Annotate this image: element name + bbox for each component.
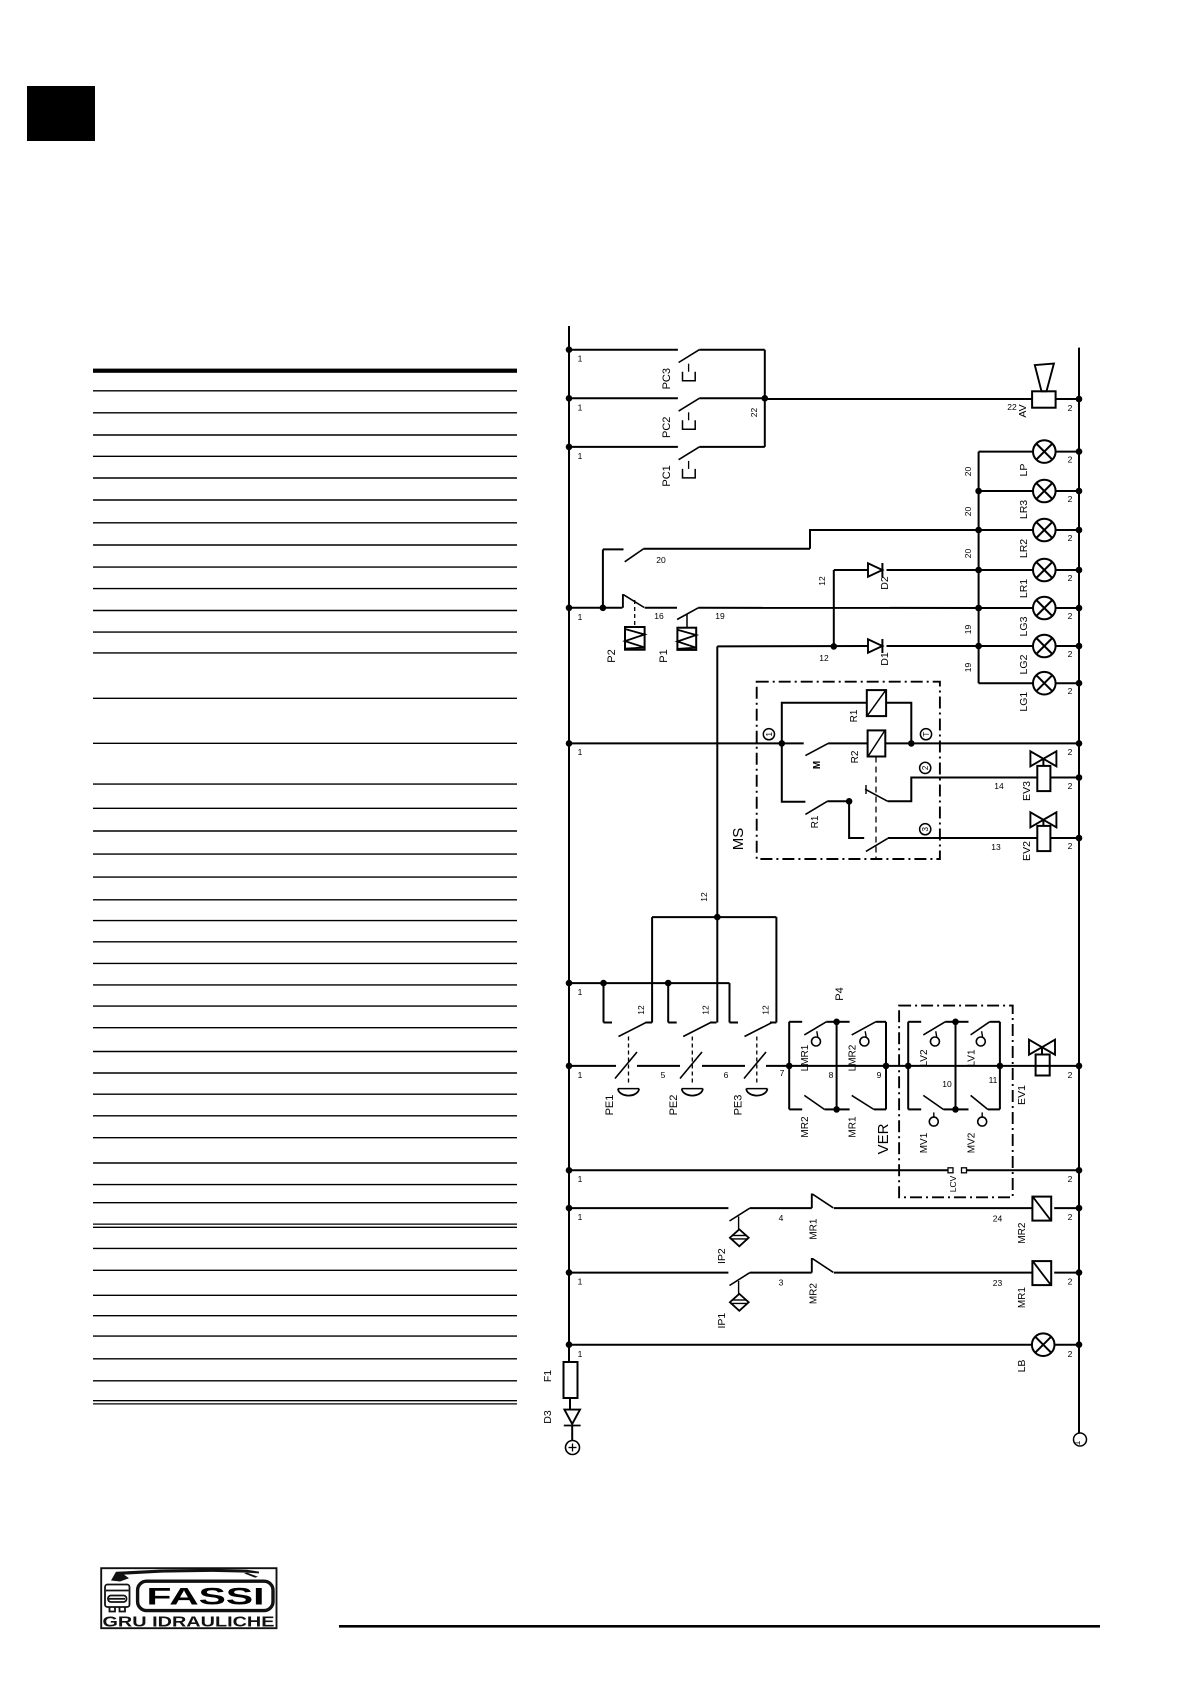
svg-text:23: 23	[993, 1278, 1003, 1288]
svg-text:11: 11	[989, 1075, 998, 1085]
svg-text:MS: MS	[730, 828, 747, 851]
svg-text:2: 2	[1068, 781, 1073, 791]
svg-text:LG2: LG2	[1018, 654, 1030, 674]
svg-text:12: 12	[760, 1005, 770, 1015]
svg-text:12: 12	[701, 1005, 711, 1015]
svg-text:12: 12	[817, 576, 827, 586]
svg-text:1: 1	[578, 612, 583, 622]
svg-text:1: 1	[578, 747, 583, 757]
svg-text:1: 1	[578, 987, 583, 997]
svg-text:MV1: MV1	[919, 1132, 930, 1153]
svg-text:6: 6	[724, 1070, 729, 1080]
svg-text:22: 22	[1007, 402, 1017, 412]
svg-text:GRU IDRAULICHE: GRU IDRAULICHE	[103, 1615, 275, 1631]
svg-text:MR1: MR1	[809, 1218, 820, 1240]
svg-text:LMR2: LMR2	[848, 1044, 859, 1071]
svg-text:F1: F1	[542, 1370, 554, 1382]
svg-text:MV2: MV2	[967, 1132, 978, 1153]
svg-text:LCV: LCV	[948, 1175, 958, 1192]
svg-text:LB: LB	[1016, 1360, 1028, 1373]
svg-text:24: 24	[993, 1214, 1003, 1224]
svg-text:2: 2	[1068, 1277, 1073, 1287]
svg-text:1: 1	[578, 451, 583, 461]
svg-text:2: 2	[1068, 533, 1073, 543]
svg-text:12: 12	[636, 1005, 646, 1015]
svg-text:1: 1	[578, 402, 583, 412]
svg-text:LR3: LR3	[1018, 500, 1030, 519]
svg-text:LR1: LR1	[1018, 579, 1030, 598]
svg-text:2: 2	[1068, 1349, 1073, 1359]
svg-text:IP1: IP1	[716, 1313, 728, 1329]
svg-text:LMR1: LMR1	[800, 1044, 811, 1071]
svg-text:PE2: PE2	[668, 1095, 680, 1116]
svg-text:1: 1	[578, 354, 583, 364]
svg-text:LP: LP	[1018, 464, 1030, 477]
svg-text:5: 5	[661, 1070, 666, 1080]
svg-text:9: 9	[877, 1070, 882, 1080]
svg-text:LG1: LG1	[1018, 692, 1030, 712]
svg-text:2: 2	[1068, 1174, 1073, 1184]
svg-text:PC2: PC2	[661, 417, 673, 438]
svg-text:1: 1	[578, 1174, 583, 1184]
svg-text:D2: D2	[879, 576, 891, 590]
svg-text:19: 19	[963, 625, 973, 635]
svg-text:T: T	[922, 732, 931, 737]
svg-text:2: 2	[1068, 747, 1073, 757]
svg-text:EV3: EV3	[1021, 781, 1033, 801]
svg-text:PE3: PE3	[732, 1095, 744, 1116]
svg-text:EV2: EV2	[1021, 841, 1033, 861]
svg-text:LV1: LV1	[967, 1049, 978, 1066]
svg-text:R2: R2	[850, 750, 861, 763]
svg-text:MR1: MR1	[1017, 1287, 1028, 1309]
svg-text:2: 2	[1068, 611, 1073, 621]
svg-text:20: 20	[963, 549, 973, 559]
svg-text:4: 4	[779, 1213, 784, 1223]
svg-text:3: 3	[921, 826, 930, 831]
svg-text:1: 1	[1072, 1440, 1082, 1445]
svg-text:1: 1	[578, 1212, 583, 1222]
svg-text:19: 19	[715, 611, 725, 621]
svg-text:P4: P4	[834, 987, 846, 1000]
svg-text:7: 7	[780, 1068, 785, 1078]
svg-text:2: 2	[1068, 403, 1073, 413]
svg-text:2: 2	[1068, 573, 1073, 583]
svg-text:MR1: MR1	[848, 1116, 859, 1138]
svg-text:EV1: EV1	[1016, 1085, 1028, 1105]
svg-text:14: 14	[994, 781, 1004, 791]
svg-text:D3: D3	[542, 1410, 554, 1424]
svg-text:2: 2	[1068, 686, 1073, 696]
svg-text:2: 2	[1068, 1070, 1073, 1080]
svg-text:PE1: PE1	[604, 1095, 616, 1116]
svg-text:10: 10	[942, 1079, 952, 1089]
svg-text:FASSI: FASSI	[147, 1584, 265, 1611]
svg-text:P2: P2	[606, 649, 618, 662]
svg-text:22: 22	[749, 408, 759, 418]
svg-text:MR2: MR2	[809, 1283, 820, 1305]
svg-text:2: 2	[1068, 455, 1073, 465]
svg-text:12: 12	[819, 653, 829, 663]
svg-text:13: 13	[991, 842, 1001, 852]
svg-text:20: 20	[963, 507, 973, 517]
svg-text:1: 1	[578, 1070, 583, 1080]
svg-text:1: 1	[578, 1349, 583, 1359]
svg-text:2: 2	[1068, 1212, 1073, 1222]
svg-text:20: 20	[963, 467, 973, 477]
svg-text:8: 8	[829, 1070, 834, 1080]
svg-text:16: 16	[654, 611, 664, 621]
svg-text:LR2: LR2	[1018, 539, 1030, 558]
svg-text:19: 19	[963, 663, 973, 673]
svg-text:PC1: PC1	[661, 465, 673, 486]
svg-text:12: 12	[699, 892, 709, 902]
svg-text:1: 1	[578, 1277, 583, 1287]
svg-text:3: 3	[779, 1278, 784, 1288]
svg-text:2: 2	[1068, 841, 1073, 851]
svg-text:VER: VER	[875, 1123, 892, 1154]
svg-text:R1: R1	[810, 815, 821, 828]
svg-text:IP2: IP2	[716, 1248, 728, 1264]
svg-text:2: 2	[1068, 494, 1073, 504]
svg-text:20: 20	[656, 555, 666, 565]
svg-text:AV: AV	[1017, 404, 1029, 417]
svg-text:R1: R1	[849, 709, 860, 722]
svg-text:2: 2	[1068, 649, 1073, 659]
svg-text:PC3: PC3	[661, 368, 673, 389]
svg-text:MR2: MR2	[800, 1116, 811, 1138]
svg-text:D1: D1	[879, 652, 891, 666]
svg-text:LV2: LV2	[919, 1049, 930, 1066]
svg-text:2: 2	[921, 765, 930, 770]
svg-text:LG3: LG3	[1018, 616, 1030, 636]
svg-text:MR2: MR2	[1017, 1222, 1028, 1244]
svg-text:P1: P1	[658, 649, 670, 662]
svg-text:1: 1	[765, 731, 774, 736]
svg-text:M: M	[812, 761, 823, 769]
